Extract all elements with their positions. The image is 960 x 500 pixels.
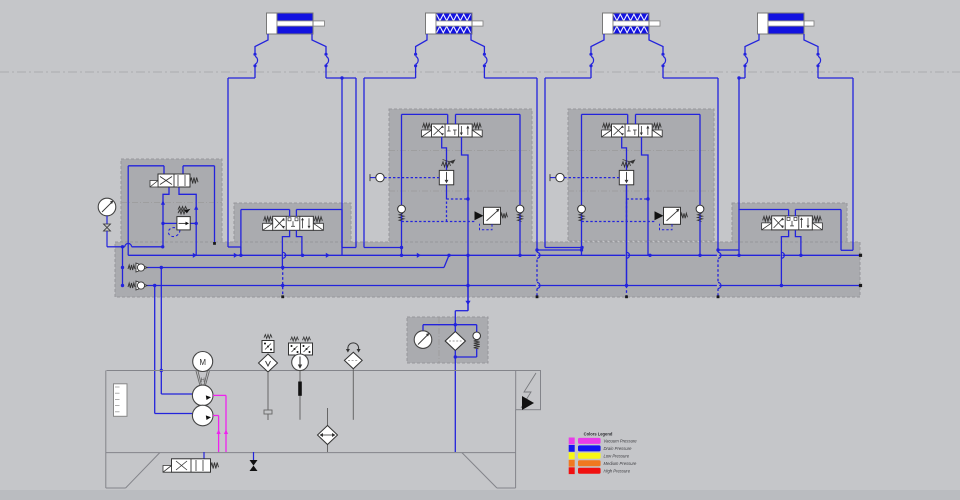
svg-text:M: M — [199, 358, 206, 367]
svg-text:Low Pressure: Low Pressure — [604, 454, 630, 459]
svg-text:Medium Pressure: Medium Pressure — [604, 461, 637, 466]
svg-text:High Pressure: High Pressure — [604, 468, 631, 473]
svg-text:Drain Pressure: Drain Pressure — [604, 446, 633, 451]
svg-text:H: H — [201, 378, 205, 384]
svg-text:Vacuum Pressure: Vacuum Pressure — [604, 439, 638, 444]
svg-text:Colors Legend: Colors Legend — [584, 432, 613, 437]
